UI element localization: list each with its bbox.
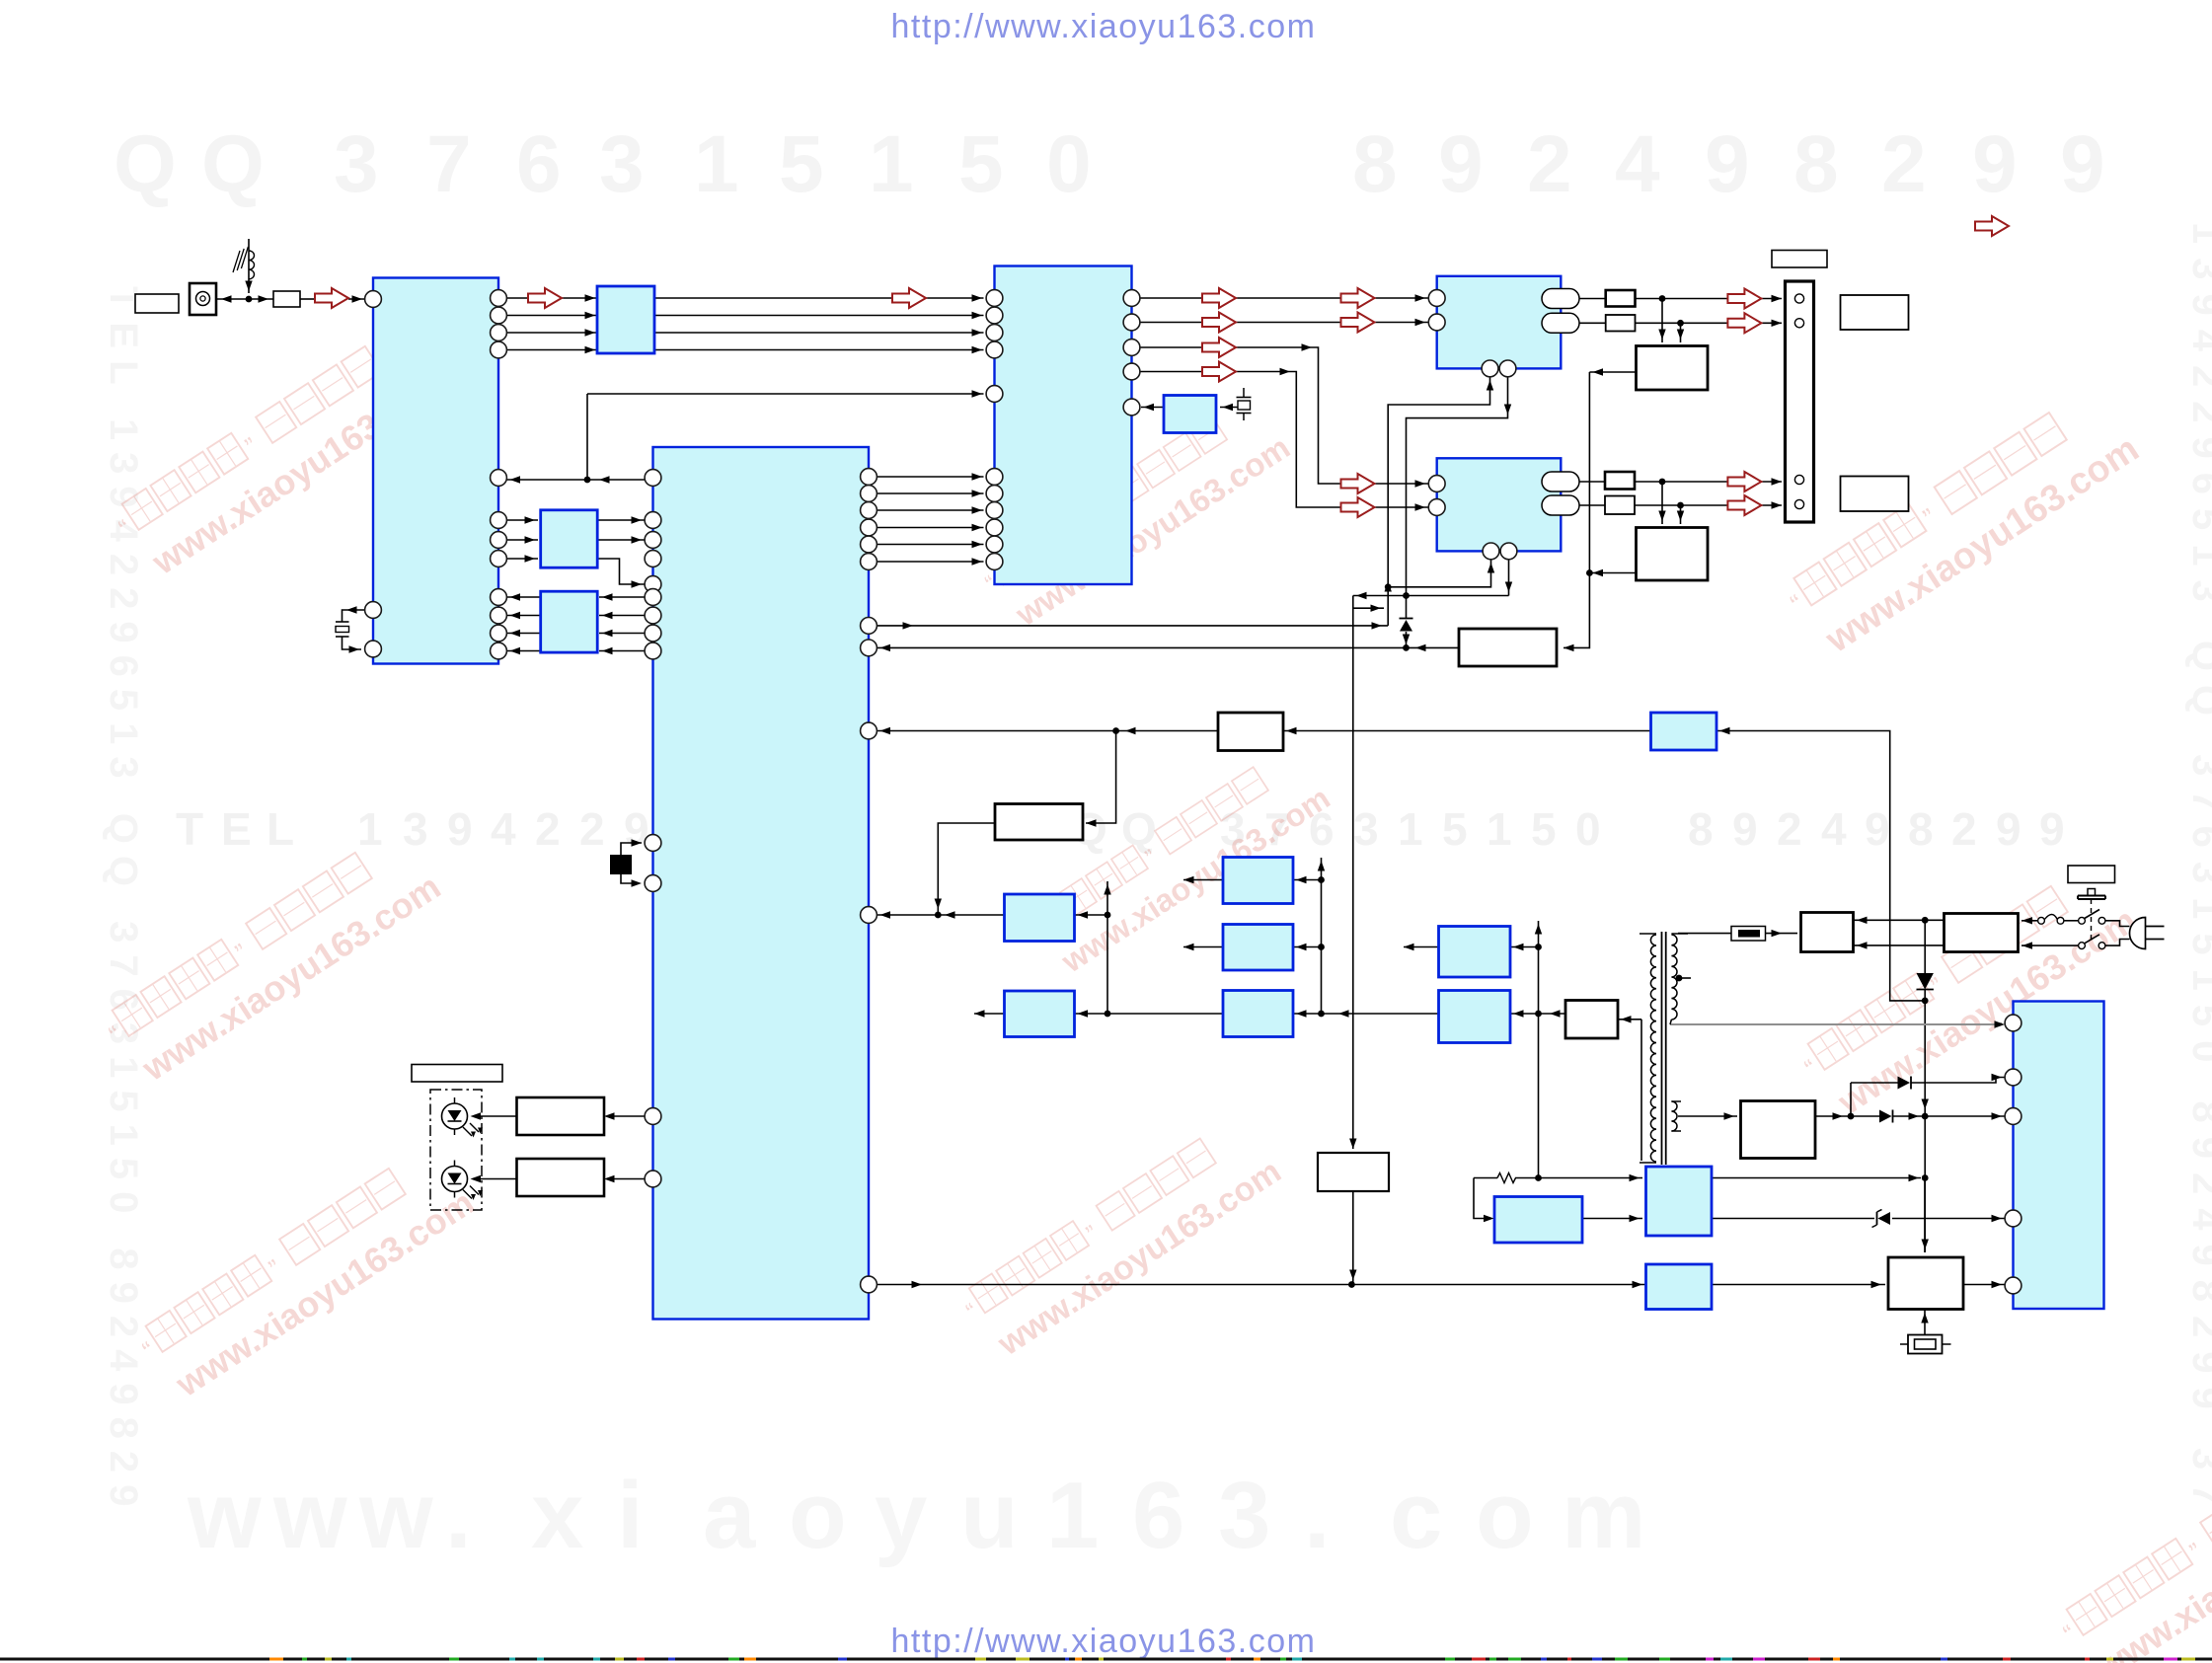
svg-text:4: 4 — [491, 803, 516, 855]
svg-text:5: 5 — [1442, 803, 1468, 855]
svg-text:1: 1 — [1046, 1463, 1099, 1568]
svg-text:u: u — [960, 1463, 1019, 1568]
svg-text:w: w — [358, 1463, 433, 1568]
svg-text:8: 8 — [1352, 119, 1398, 209]
svg-text:TEL 13942296513 QQ 376315150 8: TEL 13942296513 QQ 376315150 89249829 — [102, 286, 145, 1518]
svg-text:.: . — [445, 1463, 472, 1568]
svg-text:i: i — [617, 1463, 644, 1568]
svg-text:E: E — [221, 803, 252, 855]
svg-text:a: a — [703, 1463, 756, 1568]
svg-text:2: 2 — [1881, 119, 1927, 209]
svg-text:3: 3 — [1353, 803, 1379, 855]
svg-text:9: 9 — [1865, 803, 1890, 855]
svg-text:7: 7 — [426, 119, 472, 209]
svg-text:9: 9 — [2060, 119, 2105, 209]
svg-text:4: 4 — [1821, 803, 1847, 855]
svg-text:2: 2 — [1527, 119, 1572, 209]
svg-text:6: 6 — [1132, 1463, 1184, 1568]
svg-text:4: 4 — [1615, 119, 1660, 209]
svg-text:9: 9 — [1996, 803, 2021, 855]
svg-text:9: 9 — [1732, 803, 1758, 855]
svg-text:9: 9 — [447, 803, 473, 855]
svg-text:6: 6 — [516, 119, 562, 209]
svg-text:o: o — [1476, 1463, 1534, 1568]
svg-text:2: 2 — [535, 803, 561, 855]
svg-text:Q: Q — [1121, 803, 1157, 855]
svg-text:http://www.xiaoyu163.com: http://www.xiaoyu163.com — [891, 8, 1317, 45]
svg-text:8: 8 — [1688, 803, 1714, 855]
svg-text:3: 3 — [599, 119, 645, 209]
svg-text:w: w — [187, 1463, 262, 1568]
svg-text:3: 3 — [334, 119, 379, 209]
svg-text:m: m — [1562, 1463, 1645, 1568]
svg-text:1: 1 — [869, 119, 914, 209]
svg-text:9: 9 — [1705, 119, 1750, 209]
svg-text:o: o — [789, 1463, 847, 1568]
svg-text:Q: Q — [114, 119, 177, 209]
svg-text:2: 2 — [1951, 803, 1977, 855]
svg-text:3: 3 — [403, 803, 428, 855]
svg-text:0: 0 — [1575, 803, 1601, 855]
svg-text:w: w — [272, 1463, 347, 1568]
svg-text:1: 1 — [1398, 803, 1423, 855]
svg-text:3: 3 — [1218, 1463, 1270, 1568]
svg-text:x: x — [531, 1463, 583, 1568]
svg-text:y: y — [875, 1463, 927, 1568]
svg-text:1: 1 — [1487, 803, 1512, 855]
svg-text:5: 5 — [958, 119, 1004, 209]
svg-text:L: L — [267, 803, 294, 855]
svg-text:2: 2 — [1777, 803, 1802, 855]
svg-text:5: 5 — [779, 119, 824, 209]
svg-text:http://www.xiaoyu163.com: http://www.xiaoyu163.com — [891, 1623, 1317, 1660]
svg-text:0: 0 — [1046, 119, 1092, 209]
svg-text:9: 9 — [1972, 119, 2018, 209]
svg-text:T: T — [176, 803, 203, 855]
svg-text:9: 9 — [1438, 119, 1484, 209]
svg-text:2: 2 — [579, 803, 605, 855]
svg-text:5: 5 — [1531, 803, 1557, 855]
svg-text:9: 9 — [2039, 803, 2065, 855]
svg-text:8: 8 — [1793, 119, 1839, 209]
svg-text:1: 1 — [694, 119, 739, 209]
svg-text:1: 1 — [357, 803, 383, 855]
svg-text:13942296513 QQ 376315150 89249: 13942296513 QQ 376315150 892498299 37 — [2184, 222, 2212, 1519]
svg-text:c: c — [1390, 1463, 1442, 1568]
svg-text:Q: Q — [201, 119, 265, 209]
svg-text:8: 8 — [1908, 803, 1934, 855]
svg-text:.: . — [1304, 1463, 1331, 1568]
